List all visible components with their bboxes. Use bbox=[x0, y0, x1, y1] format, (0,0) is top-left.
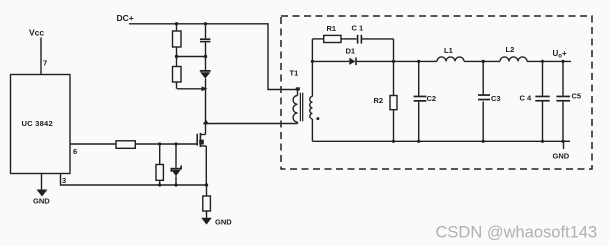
svg-text:D1: D1 bbox=[346, 47, 356, 56]
svg-text:GND: GND bbox=[553, 152, 570, 161]
svg-text:C 1: C 1 bbox=[352, 24, 364, 33]
svg-text:CSDN @whaosoft143: CSDN @whaosoft143 bbox=[436, 224, 598, 242]
svg-text:T1: T1 bbox=[290, 69, 299, 78]
svg-text:L2: L2 bbox=[506, 45, 515, 54]
svg-text:C 4: C 4 bbox=[520, 94, 533, 103]
svg-text:C3: C3 bbox=[491, 94, 501, 103]
svg-text:3: 3 bbox=[62, 176, 66, 185]
svg-text:L1: L1 bbox=[444, 46, 453, 55]
svg-text:C5: C5 bbox=[572, 92, 582, 101]
svg-text:R1: R1 bbox=[327, 24, 337, 33]
svg-text:DC+: DC+ bbox=[117, 13, 134, 23]
svg-text:7: 7 bbox=[43, 59, 47, 68]
svg-text:GND: GND bbox=[33, 197, 50, 206]
svg-text:6: 6 bbox=[73, 147, 77, 156]
svg-text:R2: R2 bbox=[374, 96, 384, 105]
svg-text:GND: GND bbox=[215, 218, 232, 227]
svg-text:C2: C2 bbox=[427, 94, 437, 103]
svg-text:Vcc: Vcc bbox=[29, 28, 44, 38]
svg-text:UC 3842: UC 3842 bbox=[22, 119, 53, 128]
